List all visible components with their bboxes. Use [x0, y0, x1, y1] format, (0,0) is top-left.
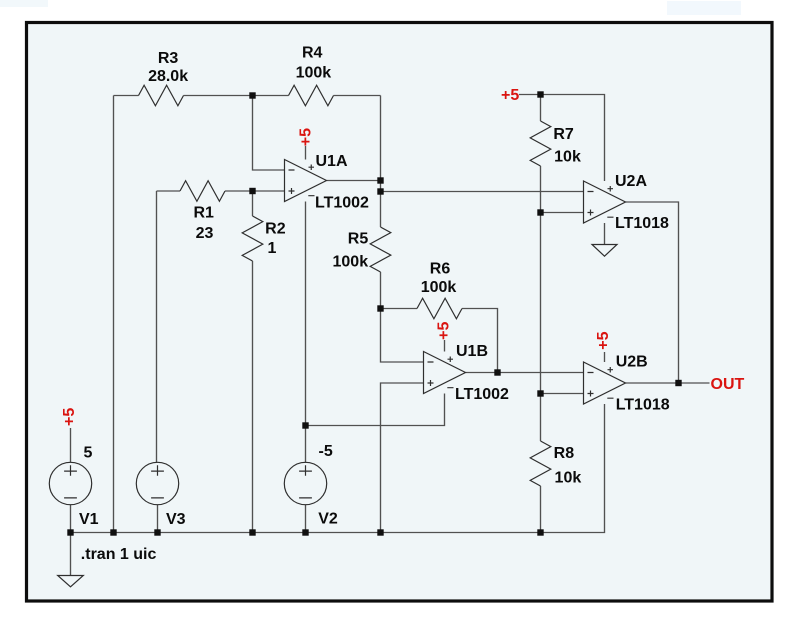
- wire U1A output: [327, 180, 381, 182]
- resistor R1: [180, 181, 225, 202]
- svg-text:LT1002: LT1002: [455, 386, 509, 403]
- wire R1 row right to U1A plus input: [225, 190, 285, 192]
- node junction U1A output R4: [377, 177, 383, 183]
- wire V1 bottom stub: [70, 505, 72, 533]
- wire R8 bottom to bus: [540, 486, 542, 533]
- svg-text:1: 1: [268, 240, 277, 257]
- op-amp U2A body: [584, 181, 626, 223]
- page background strip top-right: [667, 1, 741, 15]
- svg-text:5: 5: [84, 445, 93, 462]
- resistor R2: [242, 216, 263, 261]
- wire V3 bottom stub: [157, 505, 159, 533]
- wire U2A output and down to U2B output node: [626, 202, 679, 383]
- node junction bus V2: [302, 529, 308, 535]
- wire V3 top vertical: [156, 191, 158, 463]
- svg-text:LT1002: LT1002: [315, 195, 369, 212]
- wire R2 bottom to bus: [252, 261, 254, 533]
- node junction R7-U2A plus: [537, 209, 543, 215]
- wire U1A V+ supply stub: [305, 146, 307, 160]
- wire U2B plus input: [541, 393, 584, 395]
- svg-text:R7: R7: [553, 126, 574, 143]
- wire R7 bottom through U2B plus node to R8 top: [540, 166, 542, 441]
- wire x380 down to U1B minus input: [381, 309, 424, 363]
- op-amp U1B body: [424, 352, 466, 394]
- wire x380 vertical R5 to R6 node: [380, 272, 382, 309]
- wire +5 label to R7 junction: [519, 94, 541, 96]
- svg-text:V2: V2: [318, 511, 338, 528]
- node junction bus U1B plus: [377, 529, 383, 535]
- wire R6 row left: [381, 308, 418, 310]
- wire feedback from R3-R4 junction to U1A minus: [253, 96, 285, 171]
- svg-text:OUT: OUT: [711, 376, 745, 393]
- svg-text:10k: 10k: [555, 469, 582, 486]
- op-amp U1B pin markers: [428, 356, 454, 387]
- wire R2 top stub: [252, 191, 254, 216]
- svg-text:V1: V1: [79, 511, 99, 528]
- svg-text:100k: 100k: [421, 279, 457, 296]
- node junction R1-R2-U1A plus: [249, 188, 255, 194]
- svg-text:R2: R2: [265, 221, 286, 238]
- wire U2A plus input: [541, 212, 584, 214]
- voltage source V2 body: [284, 462, 326, 504]
- resistor R7: [530, 121, 551, 166]
- op-amp U2A pin markers: [588, 186, 614, 217]
- node junction feed to U2A: [377, 188, 383, 194]
- svg-text:-5: -5: [319, 443, 333, 460]
- wire -5 node across to U1B V-: [306, 394, 445, 426]
- wire R6 row right and down to U1B output node: [462, 309, 498, 373]
- page background strip top-left: [0, 0, 48, 7]
- wire R4 row left: [253, 95, 289, 97]
- svg-text:+5: +5: [61, 408, 78, 426]
- wire U2B V- down and left to bus: [541, 404, 605, 533]
- node junction -5 rail: [302, 422, 308, 428]
- wire U1B plus input from ground rail: [381, 383, 424, 533]
- svg-text:.tran 1 uic: .tran 1 uic: [81, 546, 157, 563]
- node junction U1B output R6: [494, 369, 500, 375]
- svg-text:100k: 100k: [333, 253, 369, 270]
- node junction bus V3: [154, 529, 160, 535]
- svg-text:R4: R4: [302, 45, 323, 62]
- node junction bus left rail: [110, 529, 116, 535]
- svg-text:R6: R6: [430, 260, 451, 277]
- svg-text:U1A: U1A: [316, 153, 348, 170]
- ground symbol under U2A: [592, 245, 617, 257]
- svg-text:R1: R1: [193, 205, 214, 222]
- wire V2 bottom stub: [305, 505, 307, 533]
- svg-text:U1B: U1B: [456, 343, 488, 360]
- svg-text:+5: +5: [501, 87, 519, 104]
- svg-text:U2B: U2B: [616, 353, 648, 370]
- wire U1B V+ supply stub: [444, 340, 446, 352]
- svg-text:R3: R3: [158, 50, 179, 67]
- wire U1B output to U2B inverting input: [466, 372, 584, 374]
- resistor R3: [139, 85, 184, 106]
- svg-text:23: 23: [196, 225, 214, 242]
- svg-text:R5: R5: [348, 230, 369, 247]
- svg-text:V3: V3: [166, 511, 186, 528]
- node junction bus V1: [67, 529, 73, 535]
- svg-text:100k: 100k: [296, 65, 332, 82]
- wire R1 row left: [157, 190, 181, 192]
- voltage source V3 body: [136, 462, 178, 504]
- svg-text:R8: R8: [554, 445, 575, 462]
- node junction R3-R4: [249, 92, 255, 98]
- node junction R8-U2B plus: [537, 390, 543, 396]
- voltage source V1 body: [49, 462, 91, 504]
- svg-text:+5: +5: [298, 128, 315, 146]
- op-amp U2B pin markers: [588, 367, 614, 398]
- wire R7 top stub: [540, 95, 542, 122]
- wire ground bus bottom: [71, 532, 541, 534]
- wire R3 row left: [114, 95, 139, 97]
- wire U2B output to OUT: [626, 382, 710, 384]
- wire node to U2A inverting input: [381, 191, 584, 193]
- wire V2 top stub: [305, 426, 307, 463]
- wire R3 row right to junction: [184, 95, 253, 97]
- resistor R4: [289, 85, 334, 106]
- wire U2B V+ supply stub: [604, 352, 606, 362]
- op-amp U1A body: [285, 160, 327, 202]
- wire U2A V- to ground: [604, 223, 606, 245]
- wire left vertical rail: [113, 96, 115, 533]
- svg-text:U2A: U2A: [615, 173, 647, 190]
- resistor R5: [370, 227, 391, 272]
- wire U1A V- down to -5 node: [305, 202, 307, 426]
- node junction bus R8: [537, 529, 543, 535]
- resistor R6: [417, 298, 462, 319]
- op-amp U1A pin markers: [289, 164, 315, 195]
- ground symbol bottom left: [58, 576, 84, 587]
- op-amp U2B body: [584, 362, 626, 404]
- node junction U2B output: [675, 380, 681, 386]
- svg-text:LT1018: LT1018: [615, 215, 669, 232]
- node junction R5-R6: [377, 305, 383, 311]
- wire R4 row right: [334, 95, 381, 97]
- wire V1 node to ground symbol: [70, 533, 72, 576]
- svg-text:+5: +5: [595, 331, 612, 349]
- svg-text:+5: +5: [436, 321, 453, 339]
- svg-text:LT1018: LT1018: [616, 397, 670, 414]
- node junction +5 R7: [537, 91, 543, 97]
- wire R7 junction across to U2A V+: [541, 95, 605, 182]
- resistor R8: [530, 441, 551, 486]
- svg-text:28.0k: 28.0k: [148, 68, 188, 85]
- node junction bus R2: [249, 529, 255, 535]
- svg-text:10k: 10k: [554, 149, 581, 166]
- wire x380 vertical R4 down to R5: [380, 96, 382, 228]
- wire V1 top stub: [70, 428, 72, 463]
